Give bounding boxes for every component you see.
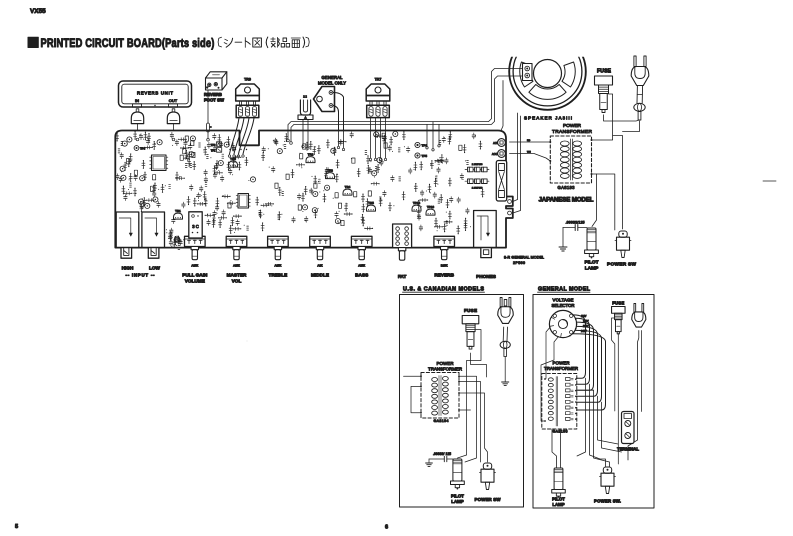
test point block TP2 <box>211 142 222 153</box>
svg-text:TREBLE: TREBLE <box>269 272 288 277</box>
svg-text:SPEAKER JA3III: SPEAKER JA3III <box>524 116 572 121</box>
power switch (japanese model) <box>619 231 627 237</box>
wire transformer secondary to power switch <box>592 174 615 230</box>
test point TP5 <box>415 153 420 158</box>
svg-text:VX55: VX55 <box>30 8 46 15</box>
connector plug to reverb IN <box>131 109 143 124</box>
svg-text:RD: RD <box>527 140 531 142</box>
svg-text:GA8193: GA8193 <box>558 185 576 190</box>
svg-text:TRANSFORMER: TRANSFORMER <box>428 366 462 371</box>
wires transformer to terminal area <box>577 378 622 466</box>
IC U1 <box>152 155 167 171</box>
svg-text:POWER SW: POWER SW <box>475 497 502 502</box>
svg-text:LAMP: LAMP <box>585 266 599 272</box>
svg-text:A1K: A1K <box>317 263 322 267</box>
svg-text:POWER: POWER <box>553 360 570 365</box>
svg-text:3 C: 3 C <box>192 224 199 229</box>
power transformer GA8194 <box>420 373 460 424</box>
wires cable clamp to board <box>302 120 309 150</box>
capacitor .00033/125 <box>563 221 587 247</box>
svg-text:PILOT: PILOT <box>451 494 464 499</box>
wire fuse tip to plug cable <box>604 115 640 121</box>
connector plug to reverb OUT <box>167 109 179 124</box>
connector ACO <box>492 150 506 158</box>
svg-text:VOLTAGE: VOLTAGE <box>553 298 574 303</box>
svg-text:2 2: 2 2 <box>303 95 307 99</box>
svg-text:VOLUME: VOLUME <box>185 279 205 284</box>
jack HIGH input <box>116 212 139 248</box>
AC plug (general model) <box>634 304 636 312</box>
board small parts scatter (resistors, capacitors, pads) <box>116 131 485 250</box>
svg-text:WH: WH <box>527 151 531 153</box>
potentiometer BASS <box>351 236 372 277</box>
wire speaker to output tab (return) <box>291 76 523 142</box>
test point TP3 <box>134 146 139 151</box>
transistor TR12 <box>174 213 183 219</box>
connector ACI <box>493 139 505 147</box>
section header square bullet <box>28 37 38 47</box>
svg-text:TRANSFORMER: TRANSFORMER <box>552 129 593 135</box>
svg-text:POWER: POWER <box>563 123 582 129</box>
transistor TR11 <box>426 209 435 215</box>
wire bus to pilot lamp <box>458 455 467 458</box>
strain relief on plug cable <box>634 86 645 121</box>
potentiometer TREBLE <box>268 236 289 277</box>
wires TR9 to board pads <box>228 118 254 157</box>
svg-text:REVERB: REVERB <box>204 92 222 97</box>
svg-text:PILOT: PILOT <box>584 260 598 266</box>
potentiometer REVERB <box>434 236 455 277</box>
svg-text:TR9: TR9 <box>244 78 251 82</box>
svg-text:ACO: ACO <box>492 152 498 156</box>
svg-text:A25K: A25K <box>274 263 281 267</box>
svg-text:2P560: 2P560 <box>513 261 525 265</box>
AC plug (US model) <box>498 298 513 324</box>
svg-text:IN: IN <box>135 98 139 103</box>
fuse clip on board <box>496 161 506 202</box>
svg-text:5: 5 <box>15 524 18 530</box>
potentiometer MIDDLE <box>310 236 331 277</box>
svg-text:JAPANESE MODEL: JAPANESE MODEL <box>539 197 594 204</box>
trimmer block 3C <box>189 212 202 238</box>
svg-text:TR1: TR1 <box>175 209 181 213</box>
svg-text:FUSE: FUSE <box>597 69 612 75</box>
svg-text:MODEL ONLY: MODEL ONLY <box>318 81 346 86</box>
wire secondary 4 down <box>459 409 471 411</box>
pilot lamp (japanese model) <box>587 228 596 250</box>
svg-text:TR2: TR2 <box>308 152 314 156</box>
svg-text:PRINTED CIRCUIT BOARD(Parts si: PRINTED CIRCUIT BOARD(Parts side) <box>41 36 215 50</box>
svg-text:POWER: POWER <box>437 361 454 366</box>
svg-text:1 10M*100: 1 10M*100 <box>472 188 483 190</box>
sub-diagram US & Canadian models frame <box>400 286 524 507</box>
test point TP6 <box>415 142 420 147</box>
tab PH circle <box>508 211 512 215</box>
cable clamp <box>298 95 313 120</box>
svg-text:FOOT SW: FOOT SW <box>204 98 225 103</box>
svg-text:REVERB: REVERB <box>434 272 454 277</box>
fuse holder (US model) <box>462 316 479 324</box>
wire plug cable to switch bus <box>623 121 640 132</box>
svg-text:GA8195: GA8195 <box>553 430 568 434</box>
wire phones tab up (second) <box>513 116 521 213</box>
PCB board outline <box>115 131 513 248</box>
svg-text:TRANSFORMER: TRANSFORMER <box>544 366 578 371</box>
reverb foot switch box <box>204 72 227 103</box>
svg-text:A25K: A25K <box>191 263 198 267</box>
transistor TR1 <box>229 161 238 167</box>
svg-text:SELECTOR: SELECTOR <box>552 303 575 308</box>
svg-text:TR4: TR4 <box>345 185 351 189</box>
transistor TR7 <box>366 78 390 118</box>
svg-text:GA8194: GA8194 <box>434 419 449 423</box>
wire fuse down right side <box>617 334 619 465</box>
transistor TR4 <box>343 189 352 195</box>
wire bus down to power switch <box>613 136 623 230</box>
wire transformer primary left <box>404 375 422 377</box>
svg-text:TP5: TP5 <box>422 154 428 158</box>
speaker terminal block <box>523 64 533 81</box>
svg-text:BASS: BASS <box>355 272 368 277</box>
japanese caption (sheet drawing, parts side) <box>218 37 309 48</box>
capacitor .00033/125 (US model) <box>429 452 453 462</box>
svg-text:MASTER: MASTER <box>227 272 247 277</box>
svg-text:LOW: LOW <box>149 265 161 270</box>
diode row D1-D3 <box>465 164 489 172</box>
svg-text:LAMP: LAMP <box>451 499 464 504</box>
wires transformer to pilot lamp <box>552 429 561 468</box>
svg-text:ACI: ACI <box>493 141 498 145</box>
wire fuse collar left down <box>612 318 615 411</box>
fuse holder (general model) <box>612 307 626 314</box>
power switch (general model) <box>603 467 611 473</box>
svg-text:=: = <box>210 126 212 129</box>
svg-text:TR7: TR7 <box>375 78 382 82</box>
svg-text:OUT: OUT <box>169 98 178 103</box>
speaker JA3111 <box>509 33 586 110</box>
plug cable down to power switch <box>628 331 639 461</box>
wire foot switch to board <box>207 90 212 141</box>
ground symbol <box>559 246 567 248</box>
svg-text:1 10M*100: 1 10M*100 <box>472 164 483 166</box>
sub-diagram general model frame <box>533 286 654 508</box>
svg-text:POWER SW: POWER SW <box>607 262 636 268</box>
tab OUT circle <box>508 200 512 204</box>
svg-text:PILOT: PILOT <box>552 497 565 502</box>
wire ACI to transformer <box>510 141 551 143</box>
wire speaker to output tab (hot) <box>288 69 523 140</box>
wire transformer primary loop <box>411 386 421 412</box>
svg-text:TP16: TP16 <box>427 205 435 209</box>
jack LOW input <box>142 212 165 248</box>
svg-text:LAMP: LAMP <box>552 502 564 507</box>
reverb unit enclosure <box>119 81 192 107</box>
fuse holder (japanese model) <box>595 76 613 85</box>
wire phones tab up (speaker side) <box>513 113 518 202</box>
svg-text:6: 6 <box>385 525 388 531</box>
second plug wire <box>641 331 643 412</box>
terminal block <box>622 412 635 444</box>
svg-text:FUSE: FUSE <box>612 300 624 305</box>
transistor TR2 <box>306 157 315 163</box>
svg-text:U.S. & CANADIAN MODELS: U.S. & CANADIAN MODELS <box>403 286 484 292</box>
wire reverb OUT plug to board <box>173 124 175 131</box>
svg-text:PHONES: PHONES <box>476 274 496 279</box>
wires voltage selector fan <box>572 315 605 410</box>
svg-text:GENERAL: GENERAL <box>322 75 344 80</box>
ground symbol (US model) <box>502 381 509 383</box>
electrolytic capacitor C30 <box>246 340 248 342</box>
wire selector bottom down <box>541 337 559 422</box>
svg-text:.00033/ 125: .00033/ 125 <box>433 452 451 456</box>
svg-text:TP6: TP6 <box>422 144 428 148</box>
rotary switch FAT <box>393 224 412 279</box>
wire fuse collar to bus <box>467 330 482 456</box>
pads row under TR9 notch <box>229 149 247 150</box>
wire secondary 2 to bus <box>459 382 481 463</box>
wire plug to ground <box>504 357 506 382</box>
thermal breaker (general model only) <box>314 87 335 112</box>
transistor TR10 <box>412 205 421 211</box>
fold mark <box>763 180 776 182</box>
svg-text:A25K: A25K <box>233 263 240 267</box>
wire ACO to transformer <box>510 154 551 162</box>
diode row D4-D6 <box>465 179 489 190</box>
strain relief (US model) <box>500 327 510 357</box>
svg-text:HIGH: HIGH <box>122 265 134 270</box>
wires thermal breaker to board <box>333 93 345 151</box>
jack PHONES <box>474 211 497 279</box>
wire reverb IN plug to board <box>137 124 139 131</box>
svg-text:GENERAL MODEL: GENERAL MODEL <box>538 286 591 292</box>
potentiometer PULL GAIN VOLUME <box>182 236 208 283</box>
svg-text:.00033/125: .00033/125 <box>566 221 585 225</box>
wire to pilot lamp <box>592 174 597 227</box>
IC U2 <box>238 194 249 209</box>
transistor TR9 <box>236 78 260 118</box>
power transformer GA8195 <box>542 374 577 434</box>
wire secondary 1 to bus <box>459 376 477 462</box>
svg-text:MIDDLE: MIDDLE <box>311 272 329 277</box>
wire secondary 3 to bus <box>459 393 488 462</box>
AC plug (japanese model) <box>634 56 636 67</box>
svg-text:REVERB UNIT: REVERB UNIT <box>137 91 173 96</box>
potentiometer MASTER VOL <box>226 236 247 283</box>
pilot lamp (US model) <box>453 459 462 481</box>
svg-text:TERMINAL: TERMINAL <box>617 447 639 452</box>
voltage selector switch <box>549 310 589 337</box>
wire fuse tip down <box>471 353 487 377</box>
transistor TR3 <box>326 173 335 179</box>
transistor TR5 <box>367 205 376 211</box>
pilot lamp (general model) <box>554 468 563 490</box>
svg-text:8-R GENERAL MODEL: 8-R GENERAL MODEL <box>504 256 544 260</box>
wire speaker terminal down to board <box>501 81 503 131</box>
svg-text:FUSE: FUSE <box>464 308 477 313</box>
wire fuse to transformer primary <box>592 94 613 140</box>
wires TR7 to board pads <box>369 118 386 161</box>
power switch (US model) <box>483 463 491 469</box>
power transformer GA8193 <box>549 136 592 190</box>
svg-text:POWER SW.: POWER SW. <box>594 499 621 504</box>
wire drop from speaker pair 1 <box>426 122 440 151</box>
ground symbol (US model 2) <box>426 462 433 464</box>
wire selector left to transformer <box>546 328 550 379</box>
svg-text:FAT: FAT <box>398 274 407 279</box>
svg-text:PULL GAIN: PULL GAIN <box>182 272 208 277</box>
svg-text:B25K: B25K <box>441 263 448 267</box>
svg-text:A25K: A25K <box>358 263 365 267</box>
svg-text:VOL: VOL <box>232 279 242 284</box>
svg-text:-- INPUT --: -- INPUT -- <box>126 273 156 278</box>
